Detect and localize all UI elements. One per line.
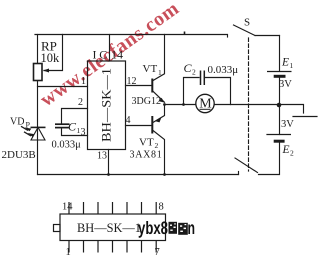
- svg-text:BH—SK—1: BH—SK—1: [77, 220, 141, 235]
- svg-text:VT: VT: [139, 137, 154, 149]
- svg-text:VD: VD: [10, 117, 24, 128]
- svg-text:7: 7: [155, 247, 160, 258]
- svg-text:2: 2: [290, 148, 294, 157]
- svg-text:14: 14: [62, 202, 73, 213]
- svg-text:1: 1: [158, 68, 162, 77]
- svg-text:10k: 10k: [41, 51, 61, 65]
- svg-text:3V: 3V: [281, 119, 294, 130]
- svg-text:E: E: [282, 144, 290, 156]
- svg-text:ybx8: ybx8: [138, 218, 168, 238]
- svg-text:13: 13: [97, 151, 107, 162]
- svg-text:2: 2: [155, 141, 159, 150]
- svg-text:1: 1: [77, 126, 81, 135]
- svg-text:4: 4: [126, 115, 131, 126]
- svg-text:E: E: [281, 56, 289, 68]
- svg-text:1: 1: [81, 76, 86, 87]
- svg-text:3AX81: 3AX81: [130, 150, 163, 161]
- svg-text:VT: VT: [143, 63, 158, 75]
- svg-text:14: 14: [111, 48, 123, 62]
- svg-text:P: P: [26, 121, 31, 130]
- svg-text:1: 1: [290, 61, 294, 70]
- svg-text:S: S: [244, 17, 250, 29]
- svg-text:n: n: [188, 218, 196, 238]
- svg-text:0.033μ: 0.033μ: [52, 139, 82, 150]
- svg-text:0.033μ: 0.033μ: [208, 64, 239, 76]
- svg-text:3DG12: 3DG12: [132, 96, 161, 107]
- svg-text:BH—SK—1: BH—SK—1: [99, 68, 114, 142]
- svg-text:2DU3B: 2DU3B: [2, 149, 36, 161]
- svg-text:IC: IC: [93, 48, 111, 62]
- svg-text:1: 1: [66, 247, 71, 258]
- svg-text:2: 2: [78, 97, 83, 108]
- svg-text:12: 12: [127, 76, 137, 87]
- svg-text:3V: 3V: [279, 79, 292, 90]
- svg-text:2: 2: [192, 68, 196, 77]
- svg-text:8: 8: [159, 202, 164, 213]
- svg-text:3: 3: [81, 127, 86, 138]
